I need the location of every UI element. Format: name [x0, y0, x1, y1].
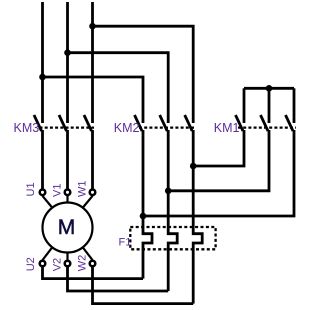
- wire L3 supply vertical: [91, 2, 94, 123]
- wire KM2 pole 2 drop with F1 heater jog: [168, 130, 177, 291]
- node L2 branch junction: [64, 49, 71, 56]
- KM3 linkage dashed line: [40, 126, 95, 128]
- svg-text:W2: W2: [77, 255, 89, 272]
- wire KM1 pole 3 to node on KM2 pole 1: [143, 130, 294, 216]
- svg-text:U1: U1: [25, 182, 37, 196]
- terminal V2: [65, 261, 71, 267]
- svg-text:M: M: [58, 216, 76, 239]
- wire motor to V2: [66, 253, 68, 261]
- wire KM2 pole 1 drop with F1 heater jog: [143, 130, 152, 279]
- wire terminal V2 to F1 heater 2: [68, 267, 169, 291]
- wire KM1 star-point bus: [244, 87, 294, 90]
- node KM1.3-KM2.1 junction: [140, 213, 147, 220]
- contactor KM3 pole 2 blade: [59, 115, 67, 131]
- contactor KM2 pole 2 blade: [160, 115, 168, 131]
- KM1 linkage dashed line: [238, 126, 296, 128]
- contactor KM3 pole 3 blade: [84, 115, 92, 131]
- contactor KM1 pole 3 blade: [286, 115, 294, 131]
- svg-text:V1: V1: [52, 184, 64, 197]
- node KM1.2-KM2.2 junction: [165, 188, 172, 195]
- contactor KM1 pole 2 blade: [261, 115, 269, 131]
- terminal W1: [90, 190, 96, 196]
- contactor KM2 pole 1 blade: [135, 115, 143, 131]
- wire KM2 pole 3 drop with F1 heater jog: [193, 130, 202, 304]
- wire KM3 pole 2 to terminal V1: [66, 130, 69, 189]
- wire terminal W2 to F1 heater 3: [93, 267, 194, 304]
- node KM1 bus junction: [266, 85, 273, 92]
- wire L2 supply vertical: [66, 2, 69, 123]
- svg-text:KM2: KM2: [114, 121, 140, 135]
- wire KM1 pole 1 riser: [243, 88, 246, 123]
- wire motor to W2: [83, 247, 93, 260]
- node KM1.1-KM2.3 junction: [190, 163, 197, 170]
- contactor KM3 pole 1 blade: [34, 115, 42, 131]
- terminal U2: [40, 261, 46, 267]
- svg-text:U2: U2: [25, 257, 37, 271]
- wire terminal U2 to F1 heater 1: [43, 267, 144, 279]
- wire KM3 pole 1 to terminal U1: [41, 130, 44, 189]
- wire motor to U2: [43, 247, 53, 260]
- wire KM1 pole 3 riser: [293, 88, 296, 123]
- svg-text:KM3: KM3: [14, 121, 40, 135]
- terminal W2: [90, 261, 96, 267]
- wire KM1 pole 2 to node on KM2 pole 2: [168, 130, 269, 191]
- svg-text:V2: V2: [52, 258, 64, 271]
- thermal overload F1 box: [130, 227, 215, 249]
- KM2 linkage dashed line: [139, 126, 195, 128]
- wire L1 branch to KM2 pole 1: [43, 77, 144, 123]
- wire V1 to motor: [66, 196, 68, 203]
- svg-text:KM1: KM1: [214, 121, 240, 135]
- wire KM3 pole 3 to terminal W1: [91, 130, 94, 189]
- contactor KM2 pole 3 blade: [185, 115, 193, 131]
- wire L1 supply vertical: [41, 2, 44, 123]
- contactor KM1 pole 1 blade: [236, 115, 244, 131]
- wire U1 to motor: [43, 196, 53, 208]
- node L1 branch junction: [39, 74, 46, 81]
- wire KM1 pole 2 riser: [268, 88, 271, 123]
- wire L2 branch to KM2 pole 2: [68, 53, 169, 123]
- terminal V1: [65, 190, 71, 196]
- svg-text:W1: W1: [77, 181, 89, 198]
- wire L3 branch to KM2 pole 3: [93, 26, 194, 123]
- node L3 branch junction: [89, 23, 96, 30]
- terminal U1: [40, 190, 46, 196]
- svg-text:F1: F1: [119, 236, 132, 248]
- wire KM1 pole 1 to node on KM2 pole 3: [193, 130, 244, 166]
- wire W1 to motor: [83, 196, 93, 208]
- motor M body: [43, 203, 93, 253]
